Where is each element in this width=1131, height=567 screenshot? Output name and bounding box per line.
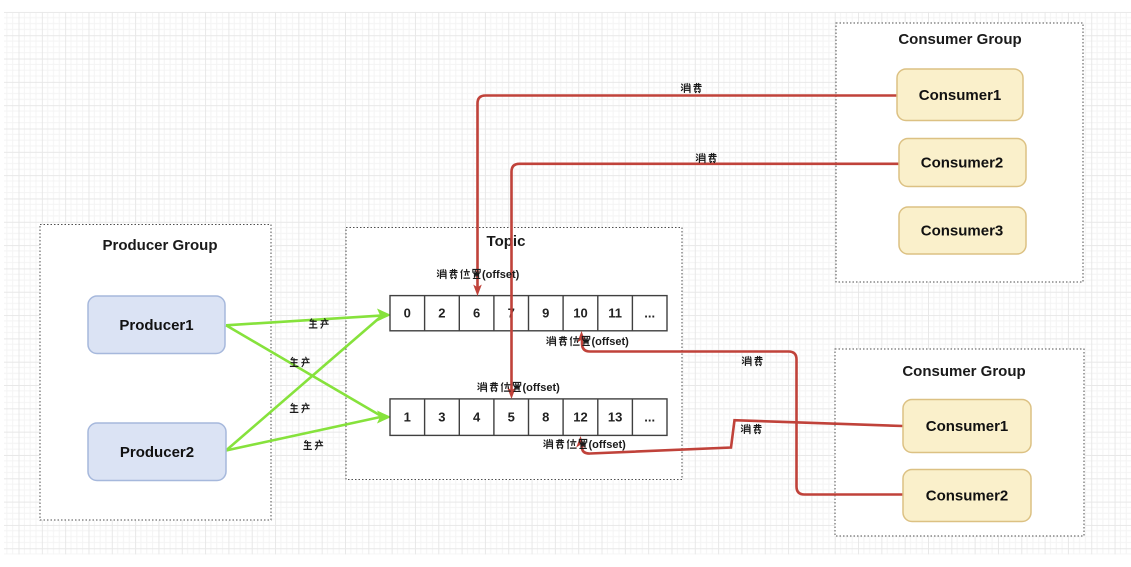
- wire consume Consumer2 (bottom group) to cell 10 of row 0: [582, 339, 903, 495]
- label consume 消费 at 692,88: [681, 83, 690, 92]
- arrowhead red down into cell 5: [507, 388, 516, 400]
- arrowhead red down into cell 6: [473, 285, 482, 297]
- svg-text:13: 13: [608, 409, 622, 424]
- label consume 消费 at 752,429: [741, 424, 750, 433]
- label produce 生产 at 319,323.5: [309, 319, 317, 328]
- svg-text:1: 1: [404, 409, 411, 424]
- svg-text:(offset): (offset): [592, 336, 630, 348]
- label: offset above row2: [478, 382, 560, 394]
- svg-text:Consumer2: Consumer2: [926, 488, 1009, 505]
- svg-text:Consumer Group: Consumer Group: [898, 31, 1021, 48]
- node: Consumer1 (top): [897, 69, 1023, 121]
- svg-text:Consumer1: Consumer1: [919, 87, 1002, 104]
- queue row 1: [390, 296, 667, 331]
- node: Consumer2 (top): [899, 139, 1026, 187]
- svg-text:10: 10: [573, 306, 587, 321]
- svg-text:Consumer3: Consumer3: [921, 223, 1004, 240]
- group: Consumer Group (top): [836, 23, 1083, 282]
- svg-text:(offset): (offset): [589, 439, 627, 451]
- svg-text:3: 3: [438, 409, 445, 424]
- node: Consumer1 (bottom): [903, 400, 1031, 453]
- wire produce Producer2 to partition row 0: [226, 316, 382, 451]
- wire produce Producer2 to partition row 1: [226, 417, 381, 451]
- svg-text:0: 0: [404, 306, 411, 321]
- label consume 消费 at 753,361: [742, 356, 751, 365]
- wire consume Consumer1 (top group) to cell 6 of row 0: [478, 96, 898, 289]
- svg-text:...: ...: [644, 306, 655, 321]
- svg-text:5: 5: [508, 409, 515, 424]
- svg-text:Consumer2: Consumer2: [921, 155, 1004, 172]
- svg-text:Producer1: Producer1: [119, 317, 193, 334]
- arrowhead red up into cell 10: [577, 331, 586, 343]
- svg-text:Producer Group: Producer Group: [102, 237, 217, 254]
- label produce 生产 at 300,362: [290, 357, 298, 366]
- svg-text:8: 8: [542, 409, 549, 424]
- node: Producer1: [88, 296, 225, 354]
- svg-text:9: 9: [542, 306, 549, 321]
- svg-text:(offset): (offset): [523, 382, 561, 394]
- queue row 2: [390, 399, 667, 436]
- svg-text:4: 4: [473, 409, 481, 424]
- svg-text:11: 11: [608, 306, 622, 321]
- group: Producer Group: [40, 225, 271, 521]
- CJK short labels: [290, 83, 762, 449]
- label produce 生产 at 313.5,445: [304, 440, 312, 449]
- wire consume Consumer2 (top group) to cell 5 of row 1: [512, 164, 900, 391]
- label: offset below row2: [544, 439, 626, 451]
- svg-text:(offset): (offset): [482, 269, 520, 281]
- svg-text:...: ...: [644, 409, 655, 424]
- svg-text:Consumer Group: Consumer Group: [902, 363, 1025, 380]
- arrowhead red up into cell 12: [576, 436, 585, 448]
- group: Topic: [346, 228, 682, 480]
- svg-text:6: 6: [473, 306, 480, 321]
- svg-text:Consumer1: Consumer1: [926, 418, 1009, 435]
- node: Producer2: [88, 423, 226, 481]
- label produce 生产 at 300,408: [290, 403, 298, 412]
- group: Consumer Group (bottom): [835, 349, 1084, 536]
- arrowhead green into partition row 0: [378, 310, 390, 321]
- label: offset above row1: [437, 269, 519, 281]
- svg-text:Producer2: Producer2: [120, 444, 194, 461]
- label consume 消费 at 707,158: [696, 153, 705, 162]
- node: Consumer3 (top): [899, 207, 1026, 254]
- label: offset below row1: [547, 336, 629, 348]
- node: Consumer2 (bottom): [903, 470, 1031, 522]
- arrowhead green into partition row 1: [378, 412, 390, 423]
- wire produce Producer1 to partition row 1: [226, 325, 382, 416]
- wire consume Consumer1 (bottom group) to cell 12 of row 1: [582, 420, 903, 453]
- wire produce Producer1 to partition row 0: [226, 316, 381, 326]
- svg-text:12: 12: [573, 409, 587, 424]
- svg-text:2: 2: [438, 306, 445, 321]
- svg-text:Topic: Topic: [487, 233, 526, 250]
